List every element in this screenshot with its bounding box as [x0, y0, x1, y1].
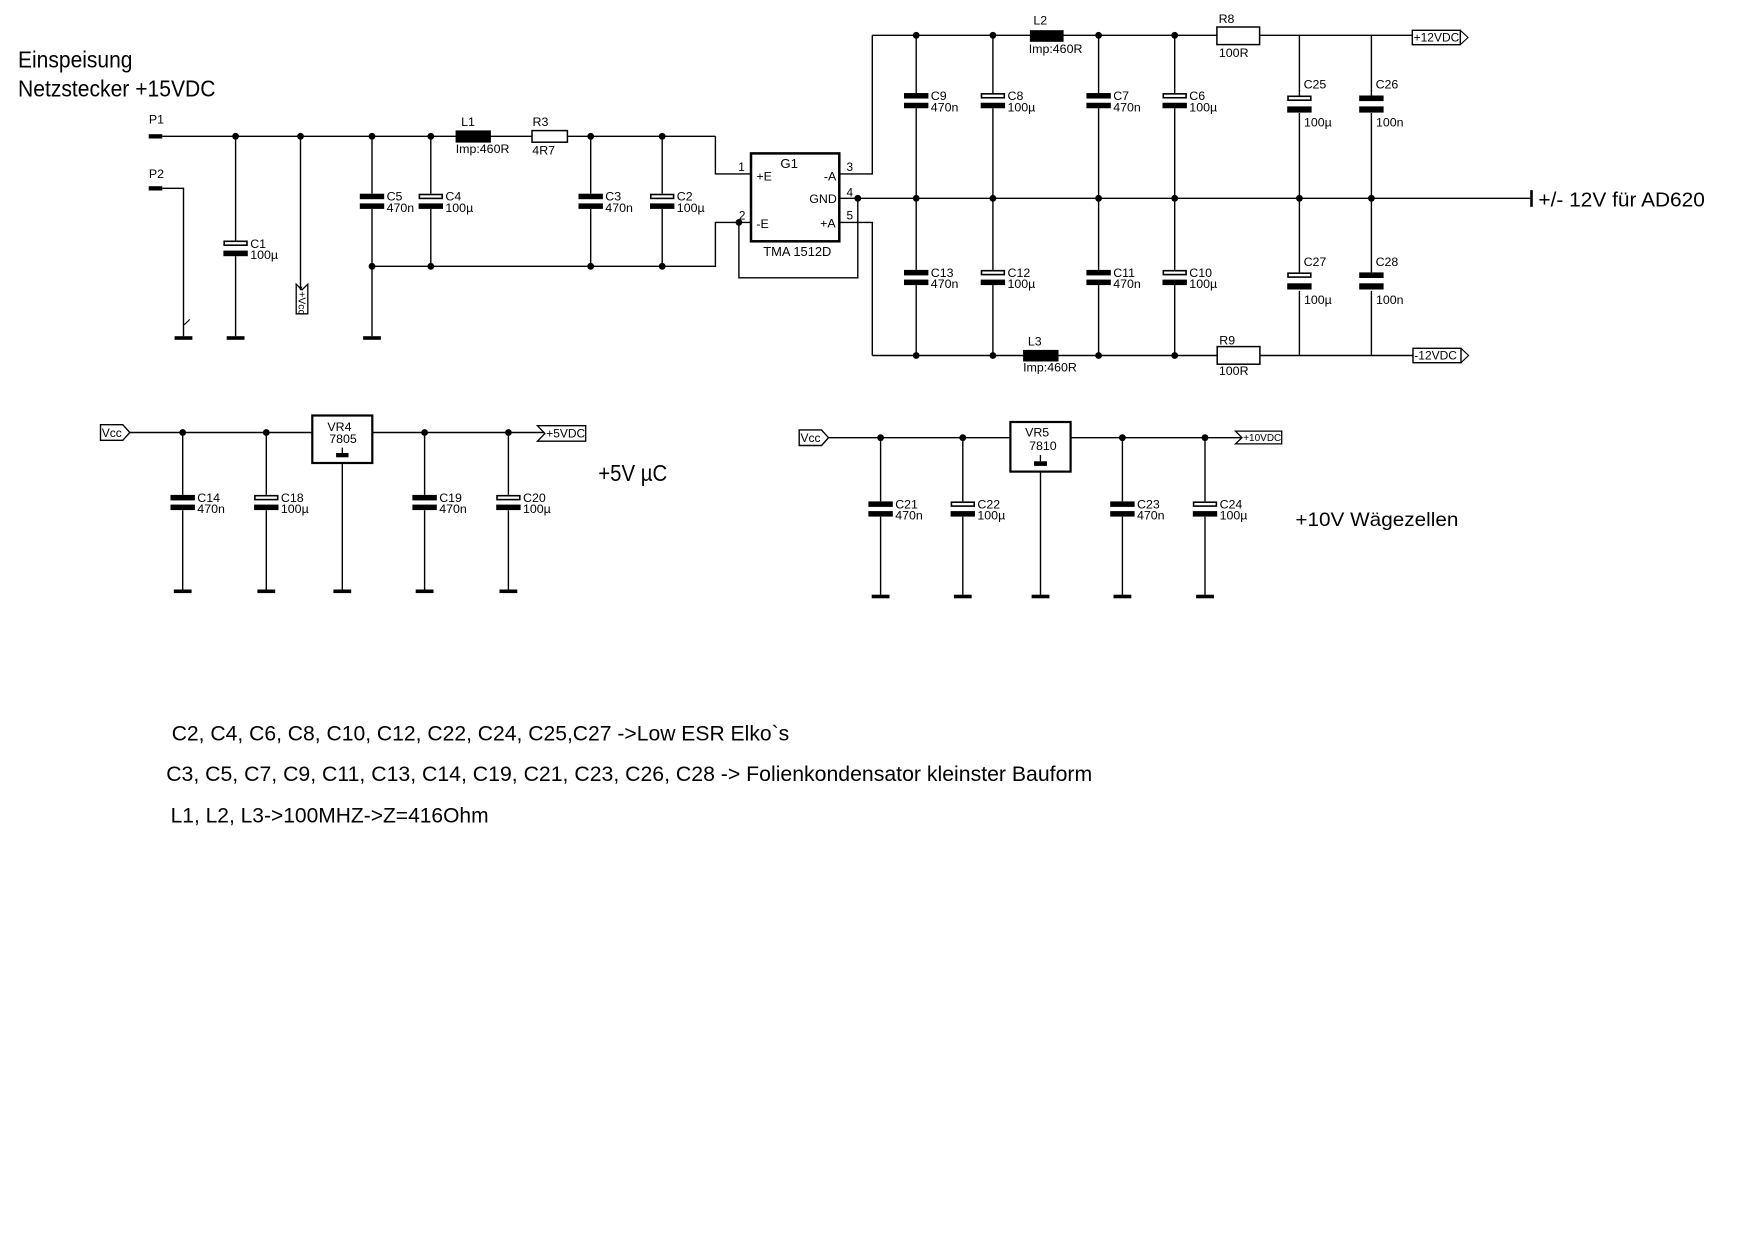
wire VR5 output rail	[1071, 434, 1243, 441]
pin name +E	[756, 169, 772, 183]
wire C9 column	[915, 35, 917, 198]
capacitor C19	[412, 491, 466, 516]
svg-text:C2, C4, C6, C8, C10, C12, C22,: C2, C4, C6, C8, C10, C12, C22, C24, C25,…	[172, 722, 790, 746]
svg-text:VR5: VR5	[1025, 426, 1049, 440]
ground C5	[363, 336, 381, 340]
ground C18	[257, 590, 275, 594]
svg-text:100µ: 100µ	[445, 201, 473, 215]
wire C12 column	[992, 198, 994, 355]
svg-text:7805: 7805	[329, 432, 357, 446]
svg-text:3: 3	[847, 160, 854, 174]
wire C10 column	[1174, 198, 1176, 355]
svg-text:100n: 100n	[1376, 293, 1404, 307]
wire C1 column	[235, 136, 237, 336]
wire P2 to ground	[162, 188, 190, 336]
svg-text:4R7: 4R7	[532, 144, 555, 158]
text Netzstecker +15VDC heading	[18, 76, 216, 102]
capacitor C24	[1193, 497, 1248, 522]
svg-text:Vcc: Vcc	[102, 426, 122, 440]
wire top output rail	[872, 32, 1412, 39]
inductor L3	[1023, 334, 1077, 374]
voltage regulator VR5	[1010, 422, 1070, 472]
svg-text:C27: C27	[1304, 255, 1327, 269]
capacitor C5	[360, 190, 414, 215]
svg-text:470n: 470n	[931, 277, 959, 291]
text note low ESR Elkos	[172, 722, 790, 746]
pin name GND	[809, 192, 837, 206]
svg-text:+12VDC: +12VDC	[1414, 31, 1460, 45]
wire C26 column	[1370, 35, 1372, 198]
svg-text:Imp:460R: Imp:460R	[456, 142, 510, 156]
svg-text:C26: C26	[1376, 77, 1399, 91]
capacitor C10	[1163, 266, 1218, 291]
svg-text:+5V µC: +5V µC	[598, 460, 667, 486]
capacitor C11	[1086, 266, 1140, 291]
ground C19	[416, 590, 434, 594]
wire C24 column	[1204, 438, 1206, 595]
inductor L1	[456, 115, 510, 156]
svg-text:-E: -E	[756, 217, 768, 231]
capacitor C21	[868, 497, 922, 522]
pin name +A	[820, 217, 836, 231]
svg-text:L3: L3	[1028, 334, 1042, 348]
svg-text:100µ: 100µ	[523, 502, 551, 516]
svg-text:Vcc: Vcc	[801, 431, 821, 445]
svg-text:100µ: 100µ	[977, 509, 1005, 523]
capacitor C9	[904, 89, 958, 114]
ground C24	[1196, 595, 1214, 599]
capacitor C25	[1287, 77, 1332, 129]
ground VR5	[1032, 595, 1050, 599]
capacitor C4	[419, 190, 474, 215]
svg-text:Imp:460R: Imp:460R	[1029, 42, 1083, 56]
power flag Vcc input of VR5	[799, 430, 828, 446]
inductor L2	[1029, 14, 1083, 56]
svg-text:-A: -A	[824, 169, 837, 183]
svg-text:G1: G1	[780, 156, 798, 171]
power flag Vcc input of VR4	[101, 425, 130, 441]
capacitor C27	[1287, 255, 1332, 307]
text +/- 12V fuer AD620	[1538, 190, 1705, 212]
svg-text:470n: 470n	[197, 502, 225, 516]
capacitor C14	[171, 491, 225, 516]
resistor R9	[1217, 334, 1260, 378]
resistor R8	[1217, 12, 1260, 60]
wire input minus rail	[369, 219, 751, 270]
svg-text:L1, L2, L3->100MHZ->Z=416Ohm: L1, L2, L3->100MHZ->Z=416Ohm	[171, 804, 489, 828]
wire bottom output rail	[872, 352, 1413, 359]
wire C20 column	[507, 433, 509, 590]
capacitor C2	[650, 190, 705, 215]
capacitor C23	[1110, 497, 1164, 522]
svg-text:100R: 100R	[1219, 46, 1249, 60]
wire GND mid rail	[839, 190, 1531, 207]
svg-text:L1: L1	[461, 115, 475, 129]
svg-text:1: 1	[738, 160, 745, 174]
ground P2	[175, 336, 193, 340]
pin 3 label	[847, 160, 854, 174]
svg-text:470n: 470n	[387, 201, 415, 215]
svg-text:470n: 470n	[1113, 277, 1141, 291]
capacitor C1	[223, 237, 278, 262]
dc-dc converter U G1	[751, 153, 839, 259]
power flag +10VDC	[1236, 431, 1282, 444]
svg-text:5: 5	[847, 209, 854, 223]
capacitor C26	[1359, 77, 1403, 129]
wire pin3 -A to top rail	[839, 35, 872, 174]
wire pin1 feed	[715, 136, 751, 174]
svg-text:Einspeisung: Einspeisung	[18, 46, 133, 72]
text Einspeisung heading	[18, 46, 133, 72]
svg-text:100µ: 100µ	[1008, 277, 1036, 291]
svg-text:470n: 470n	[439, 502, 467, 516]
svg-text:100µ: 100µ	[1189, 277, 1217, 291]
wire C8 column	[992, 35, 994, 198]
ground C14	[174, 590, 192, 594]
svg-text:L2: L2	[1033, 14, 1047, 28]
wire C4 column	[430, 136, 432, 266]
wire C2 column	[661, 136, 663, 266]
pin name -A	[824, 169, 837, 183]
capacitor C28	[1359, 255, 1403, 307]
wire VR5 ground column	[1040, 472, 1042, 595]
capacitor C18	[254, 491, 309, 516]
svg-text:GND: GND	[809, 192, 837, 206]
wire pin5 +A to bottom rail	[839, 222, 872, 355]
svg-text:100µ: 100µ	[281, 502, 309, 516]
pin 4 label	[847, 186, 854, 200]
svg-text:100n: 100n	[1376, 115, 1404, 129]
ground C21	[872, 595, 890, 599]
wire VR5 input rail	[829, 434, 1011, 441]
wire VR4 output rail	[372, 429, 544, 436]
ground C20	[500, 590, 518, 594]
wire C18 column	[265, 433, 267, 590]
wire C11 column	[1098, 198, 1100, 355]
capacitor C6	[1163, 89, 1218, 114]
svg-text:470n: 470n	[895, 509, 923, 523]
svg-text:+5VDC: +5VDC	[546, 427, 585, 441]
svg-text:100µ: 100µ	[1304, 293, 1332, 307]
text +5V uC	[598, 460, 667, 486]
svg-text:470n: 470n	[605, 201, 633, 215]
svg-text:TMA 1512D: TMA 1512D	[763, 244, 831, 259]
wire C5 column	[371, 136, 373, 336]
svg-text:+10VDC: +10VDC	[1243, 433, 1281, 444]
wire C27 column	[1298, 198, 1300, 355]
svg-text:C25: C25	[1304, 77, 1327, 91]
svg-text:P2: P2	[149, 167, 164, 181]
pin name -E	[756, 217, 768, 231]
svg-text:7810: 7810	[1029, 439, 1057, 453]
svg-text:100R: 100R	[1219, 364, 1249, 378]
power flag -12VDC	[1413, 348, 1469, 362]
text note inductors	[171, 804, 489, 828]
svg-text:100µ: 100µ	[1008, 100, 1036, 114]
wire C13 column	[915, 198, 917, 355]
svg-text:+Vcc: +Vcc	[296, 291, 307, 314]
svg-text:470n: 470n	[931, 100, 959, 114]
voltage regulator VR4	[312, 416, 372, 464]
svg-text:+E: +E	[756, 169, 772, 183]
resistor R3	[532, 115, 567, 158]
wire C6 column	[1174, 35, 1176, 198]
pin 2 label	[739, 209, 746, 223]
svg-text:C3, C5, C7, C9, C11, C13, C14,: C3, C5, C7, C9, C11, C13, C14, C19, C21,…	[166, 762, 1092, 786]
svg-text:+A: +A	[820, 217, 836, 231]
connector pin P2	[149, 167, 164, 190]
svg-text:100µ: 100µ	[677, 201, 705, 215]
svg-text:+10V Wägezellen: +10V Wägezellen	[1295, 509, 1458, 531]
capacitor C13	[904, 266, 958, 291]
svg-text:+/- 12V für AD620: +/- 12V für AD620	[1538, 190, 1705, 212]
ground C22	[954, 595, 972, 599]
svg-text:-12VDC: -12VDC	[1414, 349, 1457, 363]
svg-text:470n: 470n	[1113, 100, 1141, 114]
wire C19 column	[424, 433, 426, 590]
svg-text:470n: 470n	[1137, 509, 1165, 523]
capacitor C3	[579, 190, 633, 215]
svg-text:R3: R3	[533, 115, 549, 129]
capacitor C8	[981, 89, 1036, 114]
svg-text:P1: P1	[149, 113, 164, 127]
power flag +12VDC	[1412, 30, 1468, 44]
svg-text:100µ: 100µ	[1189, 100, 1217, 114]
capacitor C22	[951, 497, 1006, 522]
power flag +5VDC	[537, 426, 585, 442]
power flag +Vcc	[296, 284, 308, 314]
svg-text:2: 2	[739, 209, 746, 223]
wire VR4 ground column	[341, 463, 343, 590]
capacitor C7	[1086, 89, 1140, 114]
svg-text:R8: R8	[1219, 12, 1235, 26]
wire VR4 input rail	[130, 429, 312, 436]
svg-text:4: 4	[847, 186, 854, 200]
wire to +Vcc flag	[300, 136, 302, 289]
svg-text:Imp:460R: Imp:460R	[1023, 361, 1077, 375]
capacitor C12	[981, 266, 1036, 291]
ground C23	[1114, 595, 1132, 599]
wire C28 column	[1370, 198, 1372, 355]
svg-text:Netzstecker +15VDC: Netzstecker +15VDC	[18, 76, 216, 102]
text +10V Waegezellen	[1295, 509, 1458, 531]
text note Folienkondensator	[166, 762, 1092, 786]
svg-text:C28: C28	[1376, 255, 1399, 269]
wire input rail from P1	[162, 133, 715, 140]
ground VR4	[333, 590, 351, 594]
svg-text:100µ: 100µ	[250, 248, 278, 262]
capacitor C20	[496, 491, 551, 516]
wire C25 column	[1298, 35, 1300, 198]
svg-text:100µ: 100µ	[1220, 509, 1248, 523]
wire C21 column	[880, 438, 882, 595]
wire C3 column	[590, 136, 592, 266]
ground C1	[227, 336, 245, 340]
svg-text:100µ: 100µ	[1304, 115, 1332, 129]
connector pin P1	[149, 113, 164, 139]
wire GND loop -E to pin4	[739, 198, 858, 277]
wire C23 column	[1121, 438, 1123, 595]
wire C22 column	[962, 438, 964, 595]
wire C7 column	[1098, 35, 1100, 198]
pin 5 label	[847, 209, 854, 223]
wire C14 column	[182, 433, 184, 590]
svg-text:R9: R9	[1219, 334, 1235, 348]
pin 1 label	[738, 160, 745, 174]
